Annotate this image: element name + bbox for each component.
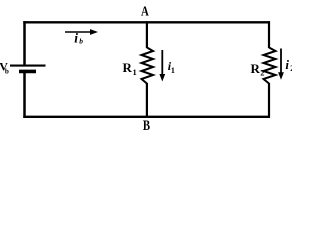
label i1 <box>168 59 175 75</box>
wire middle lower (R1 to node B) <box>146 83 148 118</box>
wire left upper (battery top lead) <box>23 21 26 65</box>
wire bottom (node B rail) <box>23 116 270 118</box>
battery Vb <box>10 66 46 72</box>
svg-text:b: b <box>79 37 83 46</box>
svg-text:B: B <box>143 118 150 134</box>
svg-text:R: R <box>251 61 261 76</box>
svg-text:2: 2 <box>290 64 292 73</box>
svg-text:1: 1 <box>171 66 175 75</box>
wire right lower (R2 to node B) <box>268 83 270 118</box>
wire top (node A rail) <box>23 21 270 23</box>
svg-text:A: A <box>141 5 149 20</box>
svg-text:2: 2 <box>260 67 264 77</box>
label ib <box>74 30 83 45</box>
wire right upper (node A to R2) <box>268 21 270 48</box>
label R2 <box>251 61 265 78</box>
svg-text:b: b <box>5 67 9 75</box>
svg-text:R: R <box>123 60 133 75</box>
label Vb <box>0 59 9 75</box>
label R1 <box>123 60 137 77</box>
svg-text:i: i <box>74 30 78 45</box>
svg-text:1: 1 <box>133 67 137 77</box>
wire middle upper (node A to R1) <box>146 21 148 48</box>
resistor R1 <box>142 48 154 84</box>
svg-text:i: i <box>285 57 289 72</box>
wire left lower (battery bottom lead) <box>23 73 26 118</box>
resistor R2 <box>264 48 276 84</box>
current arrow i1 <box>159 50 165 82</box>
current arrow i2 <box>278 49 284 80</box>
current arrow ib <box>65 29 98 35</box>
label i2 <box>285 57 294 73</box>
